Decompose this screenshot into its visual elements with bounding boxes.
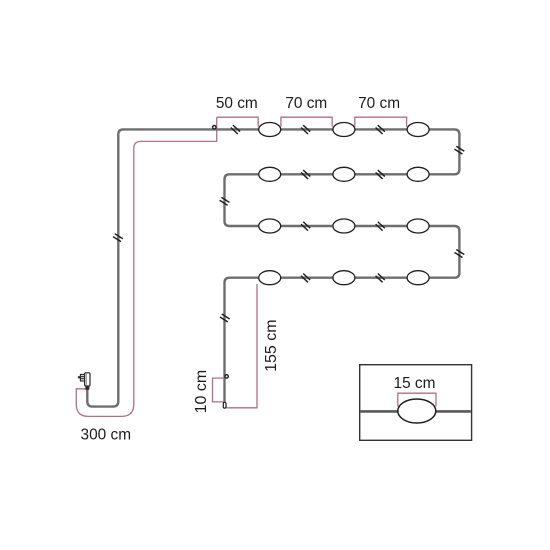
measurement bracket 50 cm (pink) [217,117,259,127]
cable end cap [223,402,226,408]
lamp L5 [333,167,355,181]
lamp L9 [407,219,429,233]
cut mark right vertical 1 [455,146,465,154]
svg-text:155 cm: 155 cm [263,319,280,371]
lamp (detail, enlarged) [398,399,436,423]
lamp L12 [407,271,429,285]
cut mark row1 segment b [301,125,310,134]
connector knob (top, start of garland section) [213,126,216,129]
plug head block [80,374,85,381]
measurement bracket 10 cm (pink) [213,378,224,402]
measurement bracket 70 cm first (pink) [281,117,332,127]
cut mark left vertical row2-row3 [220,197,230,205]
svg-text:70 cm: 70 cm [358,95,400,112]
cut mark row4 segment a [301,273,310,282]
wire: 300 cm measurement line (pink) from connector down left side to plug [76,117,216,416]
wire: 155 cm measurement line (pink) from last lamp down to cable end [226,284,257,408]
lamp L4 [259,167,281,181]
lamp L6 [407,167,429,181]
plug body [85,373,90,386]
wire inside detail box [360,410,471,413]
lamp L10 [259,271,281,285]
cut mark row2 segment b [376,170,385,179]
plug boot [85,386,89,390]
wire: main garland cable (gray) plug lead + serpentine rows [87,129,459,406]
cut mark right vertical 2 [455,250,465,258]
cut mark row3 segment b [376,222,385,231]
lamp L11 [333,271,355,285]
lamp L7 [259,219,281,233]
plug P1 [78,373,90,390]
cut mark row4 segment b [376,273,385,282]
lamp L1 [259,123,281,137]
measurement bracket 70 cm second (pink) [355,117,407,127]
svg-text:10 cm: 10 cm [193,370,210,414]
cut mark row3 segment a [301,222,310,231]
svg-text:300 cm: 300 cm [81,427,131,444]
measurement bracket 15 cm (pink) [398,393,436,406]
cut mark on lead wire (left vertical) [113,234,123,242]
detail box frame [360,365,472,441]
cut mark row2 segment a [301,170,310,179]
cut mark row1 segment a [231,125,240,134]
svg-text:50 cm: 50 cm [216,95,258,112]
lamp L8 [333,219,355,233]
plug pin [78,376,81,378]
svg-text:70 cm: 70 cm [285,95,327,112]
lamp L2 [333,123,355,137]
connector knob (bottom, near cable end) [225,375,228,378]
cut mark left vertical row4-end [220,314,230,322]
svg-text:15 cm: 15 cm [394,375,436,392]
cut mark row1 segment c [376,125,385,134]
lamp L3 [407,123,429,137]
